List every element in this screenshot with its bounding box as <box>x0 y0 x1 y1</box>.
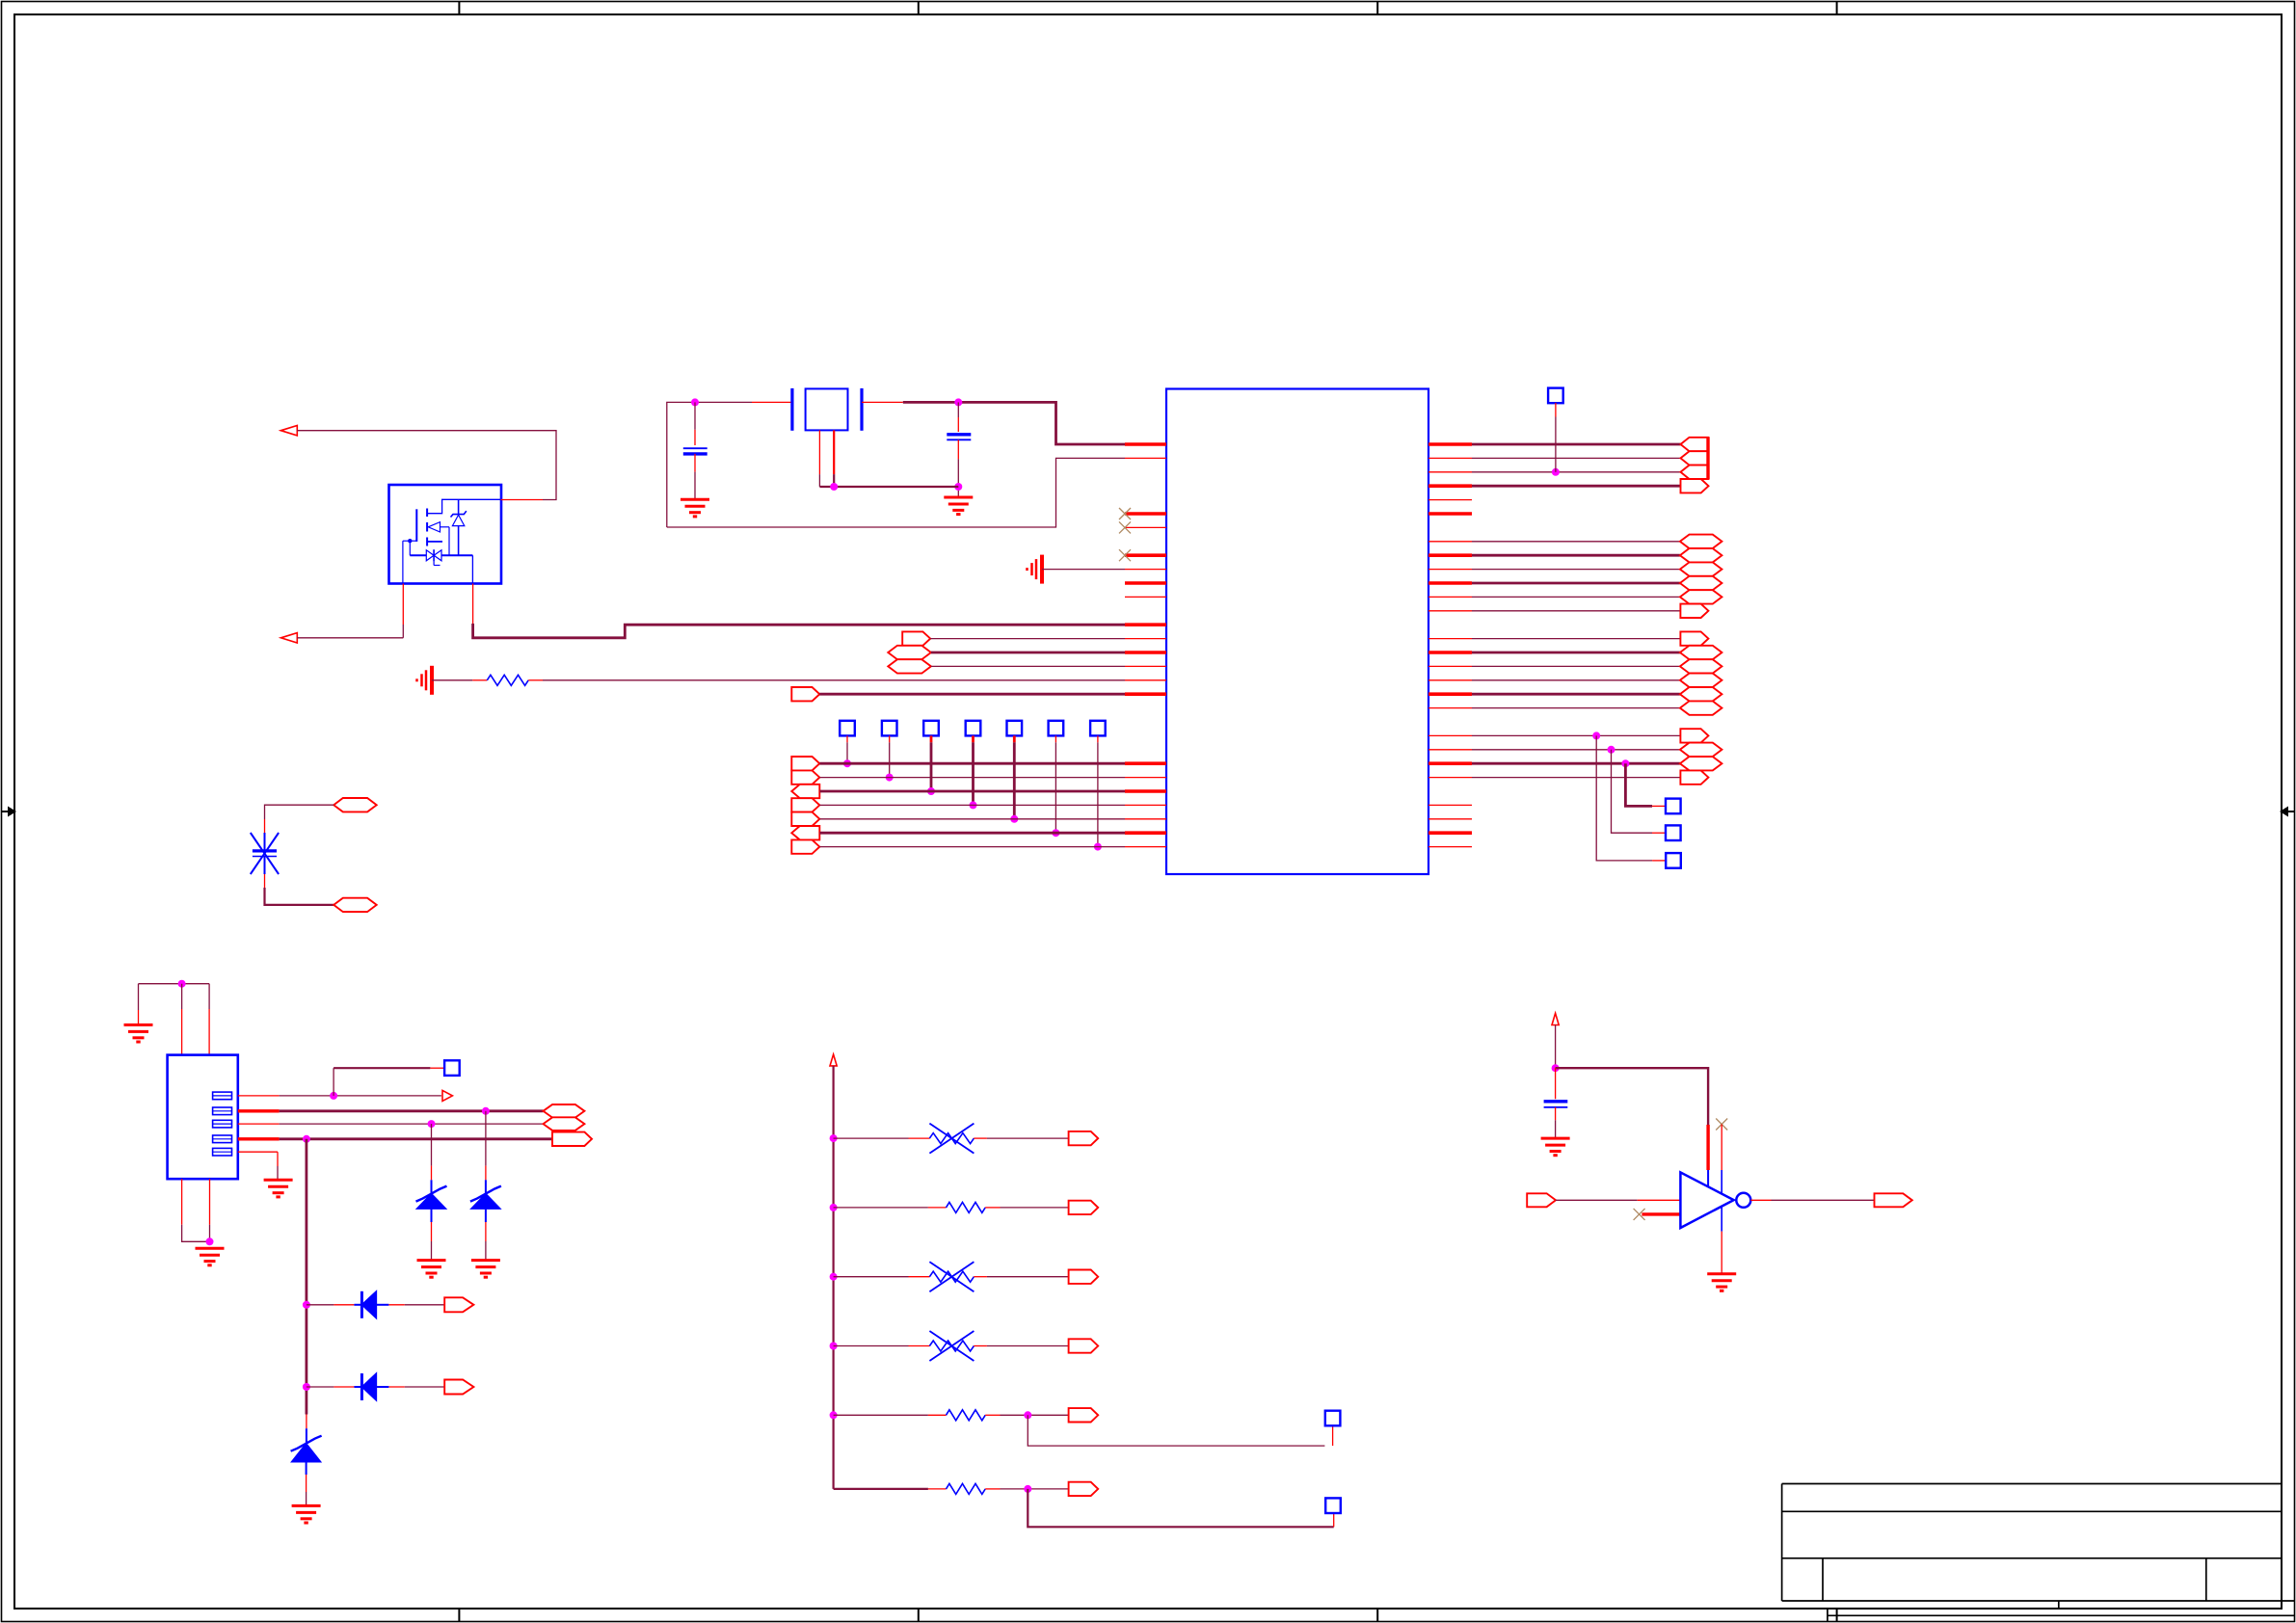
wire TP5 down to bus row y849 <box>1013 742 1016 819</box>
junction dot C2 top <box>954 398 962 406</box>
TP9 pin stub <box>1652 805 1666 807</box>
junction dot TP7 tap <box>1094 843 1102 851</box>
test point TP12 (blue square) <box>1325 1411 1341 1426</box>
IC U1 pin (left, y835) <box>1125 804 1166 806</box>
crossed-out capacitor C3 (not fitted) <box>264 833 266 851</box>
IC U1 pin (right, y777) <box>1428 749 1472 751</box>
junction dot case pin <box>830 483 838 491</box>
U2 pin row2 stub <box>238 1109 280 1112</box>
junction dot U2 top pin <box>178 980 186 988</box>
IC U1 pin (left, y878) <box>1125 846 1166 848</box>
IC U1 unconnected stub pin (right, y518) <box>1428 499 1472 501</box>
diode D2 stub right <box>388 1386 404 1388</box>
diode D2 row wire <box>307 1386 334 1388</box>
port (output right-pointing) bus row y835 <box>791 798 819 811</box>
IC U1 pin XTAL1 (left, y475) <box>1125 457 1166 459</box>
crossed-out resistor (not fitted) y1396 <box>929 1341 974 1351</box>
wire port to IC pin y677 <box>931 652 1125 654</box>
port (bidir hexagon) crossed-cap bottom <box>334 898 377 912</box>
inverter U3 power pin stub <box>1706 1125 1709 1170</box>
wire IC right y489 to port stack <box>1472 471 1681 473</box>
junction dot rail y1468 <box>830 1411 838 1419</box>
junction dot rail y1396 <box>830 1343 838 1350</box>
wire IC right y720 to hex port <box>1472 693 1680 696</box>
U2 window symbol row 3 <box>213 1120 232 1128</box>
port (output right-pointing) y763 <box>1680 729 1708 742</box>
port (output right-pointing) y1252 <box>1069 1201 1099 1214</box>
IC U1 pin (left, y677) <box>1125 651 1166 654</box>
test point TP4 (blue square) <box>966 721 981 736</box>
port (output right-pointing) bus row y849 <box>791 812 819 826</box>
power flag arrow (VCC) bottom-middle rail <box>830 1054 837 1066</box>
wire crossed-out capacitor bottom to hex port <box>265 888 334 905</box>
U2 window symbol row 2 <box>213 1107 232 1115</box>
junction dot test point branch <box>1552 468 1560 476</box>
port (bidir hexagon) y720 <box>1680 687 1722 701</box>
wire y792 branch down to test point TP9 <box>1625 763 1652 806</box>
zener diode Z1 <box>417 1194 446 1210</box>
wire input port to U3 <box>1556 1199 1638 1201</box>
net input arrow (top left) <box>280 426 297 436</box>
IC U1 unconnected stub pin (right, y849) <box>1428 818 1472 820</box>
wire bus row y792 to IC <box>819 762 1125 765</box>
crystal Y1 left plate <box>790 388 793 431</box>
wire IC right y561 to hex port <box>1472 541 1680 543</box>
wire port to IC pin y720 <box>819 693 1125 696</box>
IC U1 ground pin (left, y590) <box>1125 569 1166 571</box>
wire TP8 down to y489 net <box>1555 417 1557 472</box>
zener diode Z2 bottom lead <box>485 1209 487 1222</box>
junction dot inverter supply <box>1552 1064 1560 1072</box>
wire IC right y590 to hex port <box>1472 569 1680 571</box>
junction dot U2 bottom <box>206 1237 214 1245</box>
wire to output port y1181 <box>987 1137 1069 1139</box>
resistor stub left y1544 <box>928 1488 947 1490</box>
wire IC right y734 to hex port <box>1472 707 1680 709</box>
net input arrow (left, lower) <box>280 633 297 643</box>
decoupling capacitor C4 plates <box>1544 1100 1568 1103</box>
wire rail to resistor y1252 <box>834 1207 928 1209</box>
crystal Y1 case pin left <box>818 430 820 474</box>
IC U1 no-connect pin (left, y576) <box>1125 553 1166 557</box>
capacitor C2 top lead <box>957 402 959 417</box>
TP14 pin stub <box>430 1067 444 1069</box>
crossed-out resistor stub left y1181 <box>909 1137 930 1139</box>
junction dot y777 branch <box>1608 746 1615 754</box>
wire IC right y705 to hex port <box>1472 679 1680 681</box>
Q1 gate lead and junction <box>410 540 416 542</box>
junction dot C1 top <box>691 398 699 406</box>
wire U2 row2 to hex port <box>280 1109 544 1112</box>
port (output right-pointing) y806 <box>1680 770 1708 784</box>
wire to output port y1396 <box>987 1345 1069 1347</box>
capacitor C2 bottom lead <box>957 439 959 459</box>
Q1 bottom-left pin stub <box>402 584 404 625</box>
resistor stub right y1252 <box>985 1207 1000 1209</box>
port (bidir hexagon) y734 <box>1680 701 1722 714</box>
port (bidir hexagon) y777 <box>1680 743 1722 757</box>
wire TP7 down to bus row y878 <box>1097 742 1099 846</box>
port (bidir hexagon) row3 <box>544 1117 585 1131</box>
IC U1 pin (right, y605) <box>1428 581 1472 585</box>
IC U1 unconnected stub pin (left, y605) <box>1125 581 1166 585</box>
U2 bottom pin 2 stub <box>209 1179 211 1225</box>
Q1 internal bottom rail with back-to-back clamp <box>410 554 472 556</box>
wire TP3 down to bus row y821 <box>930 742 933 791</box>
port (output) to IC pin y720 <box>791 687 819 701</box>
wire U2 row3 to hex port <box>280 1123 544 1125</box>
IC U1 pin (right, y619) <box>1428 596 1472 598</box>
test point TP1 (blue square) <box>840 721 855 736</box>
crystal Y1 left plate pin stub <box>752 401 792 403</box>
wire IC right y806 to output port <box>1472 777 1680 779</box>
wire rail bottom row y1544 <box>834 1488 928 1490</box>
test point TP10 (blue square) <box>1666 825 1681 840</box>
port (bidir hexagon) y605 <box>1680 576 1722 590</box>
port (input left-pointing) bus row y864 <box>791 826 819 839</box>
wire R1 to IC pin y705 <box>543 679 1125 681</box>
port (bidir hexagon) y705 <box>1680 674 1722 687</box>
port (bidir hexagon) y792 <box>1680 757 1722 770</box>
crystal Y1 case pin right <box>833 430 835 474</box>
Q1 source stub <box>427 541 442 543</box>
TP1 pin stub <box>846 735 848 742</box>
resistor y1544 <box>947 1483 986 1494</box>
IC U1 pin (right, y691) <box>1428 665 1472 667</box>
IC U1 pin (left, y821) <box>1125 789 1166 793</box>
IC U1 pin (right, y677) <box>1428 651 1472 654</box>
wire IC right y691 to hex port <box>1472 665 1680 667</box>
decoupling capacitor C4 top lead <box>1555 1068 1557 1099</box>
ground (rotated) at IC left pin y590 <box>1040 555 1044 584</box>
Q1 gate bar <box>415 509 417 542</box>
IC U1 pin (left, y648) <box>1125 623 1166 626</box>
wire hex port to crossed-out capacitor top <box>265 805 334 819</box>
junction dot TP5 tap <box>1010 815 1018 823</box>
zener diode Z2 top lead <box>485 1111 487 1166</box>
wire U3 output to port <box>1772 1199 1875 1201</box>
junction dot row3 (zener Z1 tap) <box>428 1120 436 1128</box>
resistor y1468 <box>947 1410 986 1421</box>
junction dot TP6 tap <box>1052 829 1059 837</box>
left edge centre marker arrow <box>2 807 17 817</box>
ground (earth) under U3 <box>1707 1272 1736 1275</box>
ground (earth) at U2 row5 <box>264 1179 293 1182</box>
test point TP13 (blue square) <box>1325 1498 1341 1513</box>
port (output right-pointing) y1324 <box>1069 1270 1099 1284</box>
U2 window symbol row 5 <box>213 1148 232 1156</box>
IC U1 pin (right, y705) <box>1428 679 1472 681</box>
capacitor C1 plates <box>683 447 707 449</box>
wire bus row y849 to IC <box>819 818 1125 820</box>
port (output right-pointing) D2 <box>444 1380 473 1395</box>
IC U1 pin (right, y662) <box>1428 638 1472 640</box>
IC U1 unconnected stub pin (right, y878) <box>1428 846 1472 848</box>
wire crystal-right net to IC XTAL2 <box>903 402 1125 444</box>
wire port to IC pin y662 <box>930 638 1125 640</box>
TP13 pin stub <box>1333 1513 1335 1528</box>
wire IC right y461 to port stack <box>1472 443 1681 446</box>
IC U1 pin (right, y475) <box>1428 457 1472 459</box>
port (bidir hexagon) to IC pin y677 <box>888 646 931 659</box>
test point TP14 (blue square) <box>444 1060 460 1076</box>
small output arrow row1 <box>442 1090 452 1101</box>
zener diode Z2 <box>471 1194 500 1210</box>
wire IC right y763 to output port <box>1472 734 1680 736</box>
resistor R1 <box>487 675 528 685</box>
IC U1 pin (left, y720) <box>1125 692 1166 696</box>
wire IC right y633 to output port <box>1472 610 1680 612</box>
wire to output port y1252 <box>1001 1207 1069 1209</box>
port stack (input, left-pointing) y461 <box>1681 438 1709 451</box>
ground under C1 <box>681 498 709 501</box>
IC U1 no-connect pin (left, y547) <box>1125 526 1166 528</box>
crossed-out resistor stub left y1396 <box>909 1345 930 1347</box>
wire bus row y806 to IC <box>819 777 1125 779</box>
test point TP7 (blue square) <box>1090 721 1106 736</box>
port (output right-pointing) bus row y806 <box>791 770 819 784</box>
wire crystal-left net (top rail left part) <box>667 402 752 527</box>
ground (earth) under Z3 <box>292 1504 321 1507</box>
zener diode Z1 top lead <box>431 1124 433 1166</box>
Q1 internal gate-protection zener <box>458 499 460 515</box>
wire crystal-left net bottom loop to IC XTAL1 <box>667 458 1125 527</box>
wire IC right y792 to hex port <box>1472 762 1680 765</box>
wire y777 branch down to test point TP10 <box>1612 750 1653 833</box>
wire rail to crossed-out resistor y1396 <box>834 1345 909 1347</box>
wire rail to crossed-out resistor y1181 <box>834 1137 909 1139</box>
IC U1 pin (left, y691) <box>1125 665 1166 667</box>
IC U1 pin (left, y792) <box>1125 761 1166 765</box>
TP11 pin stub <box>1652 860 1666 862</box>
wire Q1 source to IC pin y648 <box>473 624 1125 638</box>
top edge zone ticks <box>459 2 1836 15</box>
wire bus row y821 to IC <box>819 790 1125 793</box>
zener diode Z3 top lead <box>306 1415 307 1429</box>
port (output right-pointing) U3 out <box>1875 1193 1912 1207</box>
IC U1 unconnected stub pin (right, y864) <box>1428 831 1472 835</box>
port (output right-pointing) bus row y792 <box>791 757 819 770</box>
ground (earth) under Z2 <box>471 1259 500 1262</box>
U2 pin row3 stub <box>238 1123 280 1125</box>
power rail vertical wire <box>832 1066 834 1489</box>
U2 pin row1 stub <box>238 1095 280 1097</box>
port (output right-pointing) y1396 <box>1069 1339 1099 1352</box>
test point TP11 (blue square) <box>1666 853 1681 868</box>
wire row1 branch up to TP14 <box>333 1068 334 1096</box>
wire TP4 down to bus row y835 <box>972 742 974 805</box>
right edge zone ticks <box>2282 406 2295 1217</box>
wire from arrow to MOSFET drain pin <box>297 431 556 500</box>
TP6 pin stub <box>1055 735 1056 742</box>
test point TP5 (blue square) <box>1007 721 1023 736</box>
no-connect X mark at U3 input2 <box>1634 1209 1645 1220</box>
bottom edge zone ticks <box>459 1609 1836 1622</box>
U3 no-connect second input stub <box>1642 1212 1680 1215</box>
no-connect X mark <box>1119 508 1131 519</box>
wire y763 branch down to test point TP11 <box>1596 735 1652 861</box>
port (bidir hexagon) y590 <box>1680 562 1722 575</box>
junction dot rail y1252 <box>830 1204 838 1211</box>
U3 input pin stub <box>1638 1199 1681 1201</box>
junction dot TP4 tap <box>970 801 977 809</box>
crystal Y1 right plate <box>860 388 863 431</box>
ground (rotated) at series resistor R1 <box>430 666 434 695</box>
port (bidir hexagon) y561 <box>1680 535 1722 548</box>
wire IC right y619 to hex port <box>1472 596 1680 598</box>
U3 output pin stub <box>1750 1199 1771 1201</box>
wire top rail of isolator U2 <box>139 983 210 985</box>
port (bidir hexagon) crossed-cap top <box>334 798 377 811</box>
resistor y1252 <box>947 1202 986 1212</box>
junction dot C2 bottom <box>954 483 962 491</box>
diode D1 row wire <box>307 1304 334 1306</box>
decoupling capacitor C4 bottom lead <box>1555 1107 1557 1120</box>
port (output right-pointing) y1544 <box>1069 1482 1099 1496</box>
resistor stub right y1544 <box>985 1488 1000 1490</box>
TP10 pin stub <box>1652 832 1666 834</box>
diode D1 stub left <box>334 1304 354 1306</box>
resistor R1 pin stub left <box>472 679 487 681</box>
ground (earth) under U2 <box>196 1247 225 1250</box>
wire U2 row4 to output port <box>280 1137 552 1140</box>
wire from arrow to MOSFET left pin <box>297 637 403 639</box>
inverter U3 bubble <box>1736 1193 1750 1208</box>
wire y1544 branch down to TP13 <box>1028 1489 1333 1527</box>
wire TP2 down to bus row y806 <box>889 742 891 777</box>
diode D1 stub right <box>388 1304 404 1306</box>
wire rail to crossed-out resistor y1324 <box>834 1276 909 1278</box>
IC U1 pin (left, y806) <box>1125 777 1166 779</box>
crossed-out resistor (not fitted) y1324 <box>929 1271 974 1282</box>
crossed-out capacitor C3 bottom stub <box>264 874 266 888</box>
wire U2 row1 to arrow <box>280 1095 441 1097</box>
diode D2 stub left <box>334 1386 354 1388</box>
TP8 pin stub <box>1555 403 1557 417</box>
IC U1 pin (right, y590) <box>1428 569 1472 571</box>
TP12 pin stub <box>1332 1425 1334 1446</box>
crystal Y1 body <box>806 388 848 430</box>
wire IC right y777 to hex port <box>1472 749 1680 751</box>
wire IC right y504 to output port <box>1472 485 1681 488</box>
port (output right-pointing) row4 <box>552 1132 592 1146</box>
IC U1 pin (right, y763) <box>1428 734 1472 736</box>
port (bidir hexagon) y619 <box>1680 590 1722 603</box>
wire U2 bottom pins to ground <box>182 1225 210 1242</box>
wire port to IC pin y691 <box>931 665 1125 667</box>
U2 bottom pin 1 stub <box>181 1179 183 1225</box>
IC U1 pin (right, y792) <box>1428 761 1472 765</box>
junction dot y792 branch <box>1621 759 1629 767</box>
wire rail to resistor y1468 <box>834 1414 928 1416</box>
test point TP6 (blue square) <box>1049 721 1064 736</box>
IC U1 pin (left, y705) <box>1125 679 1166 681</box>
zener diode Z3 <box>292 1444 321 1462</box>
IC U1 unconnected stub pin (left, y619) <box>1125 596 1166 598</box>
right edge centre marker arrow <box>2280 807 2295 817</box>
wire IC right y662 to output port <box>1472 638 1680 640</box>
diode D1 <box>360 1291 363 1318</box>
crossed-out resistor stub left y1324 <box>909 1276 930 1278</box>
junction dot TP1 tap <box>843 759 851 767</box>
TP3 pin stub <box>930 735 933 742</box>
wire D1 to output port <box>405 1304 444 1306</box>
IC U1 pin (right, y576) <box>1428 553 1472 557</box>
IC U1 pin (right, y720) <box>1428 692 1472 696</box>
wire bus row y864 to IC <box>819 832 1125 835</box>
TP2 pin stub <box>889 735 891 742</box>
resistor stub left y1468 <box>928 1414 947 1416</box>
port (output right-pointing) y1468 <box>1069 1408 1099 1422</box>
junction dot y1544 branch <box>1024 1485 1031 1493</box>
capacitor C2 plates <box>947 433 971 436</box>
wire ground to R1 <box>432 679 472 681</box>
port (bidir hexagon) row2 <box>544 1104 585 1118</box>
wire bus row y878 to IC <box>819 846 1125 848</box>
port (output right-pointing) D1 <box>444 1297 473 1312</box>
junction dot rail y1324 <box>830 1273 838 1281</box>
resistor stub left y1252 <box>928 1207 947 1209</box>
port (input left-pointing) bus row y821 <box>791 785 819 798</box>
wire TP6 down to bus row y864 <box>1055 742 1056 833</box>
zener diode Z3 bottom lead <box>306 1462 307 1475</box>
port stack (input, left-pointing) y489 <box>1681 466 1709 479</box>
capacitor C1 top lead <box>694 402 696 429</box>
IC U1 pin XTAL2 (left, y461) <box>1125 442 1166 446</box>
wire to output port y1544 <box>1001 1488 1069 1490</box>
IC U1 pin (right, y806) <box>1428 777 1472 779</box>
no-connect X mark <box>1119 549 1131 561</box>
junction dot TP2 tap <box>886 774 894 782</box>
IC U1 pin (left, y864) <box>1125 831 1166 835</box>
junction dot TP3 tap <box>927 787 935 795</box>
IC U1 pin (right, y561) <box>1428 541 1472 543</box>
junction dot row4 (diode chain tap) <box>303 1135 310 1143</box>
U2 window symbol row 1 <box>213 1092 232 1100</box>
crossed-out resistor stub right y1324 <box>974 1276 987 1278</box>
port (output right-pointing) y1181 <box>1069 1131 1099 1145</box>
IC U1 pin (right, y734) <box>1428 707 1472 709</box>
wire supply to inverter power pin <box>1556 1068 1709 1125</box>
transistor Q1 protected P-MOSFET block body <box>389 485 502 584</box>
zener diode Z1 bottom lead <box>431 1209 433 1222</box>
wire bus row y835 to IC <box>819 804 1125 806</box>
wire crystal case pins to C2 ground rail <box>819 486 958 488</box>
wire IC right y576 to hex port <box>1472 554 1680 557</box>
port (input) to inverter U3 <box>1527 1193 1556 1207</box>
port (bidir hexagon) to IC pin y691 <box>888 659 931 673</box>
ground (earth) under Z1 <box>417 1259 446 1262</box>
wire IC right y605 to hex port <box>1472 582 1680 585</box>
wire IC right y677 to hex port <box>1472 652 1680 654</box>
left edge zone ticks <box>2 406 15 1217</box>
TP4 pin stub <box>972 735 974 742</box>
port (output, right-pointing) to IC pin y662 <box>902 631 930 645</box>
diode D2 <box>360 1373 363 1400</box>
port (bidir hexagon) y677 <box>1680 646 1722 659</box>
capacitor C1 bottom lead <box>694 454 696 472</box>
test point TP9 (blue square) <box>1666 799 1681 814</box>
port (output right-pointing) y504 <box>1681 479 1709 492</box>
IC U1 unconnected stub pin (right, y533) <box>1428 512 1472 516</box>
junction dot row1 <box>330 1092 337 1100</box>
wire to output port y1324 <box>987 1276 1069 1278</box>
IC U1 pin (left, y849) <box>1125 818 1166 820</box>
IC U1 pin (left, y662) <box>1125 638 1166 640</box>
U3 ground pin <box>1721 1207 1722 1232</box>
wire ground to IC pin y590 <box>1042 569 1125 571</box>
U2 pin row5 stub <box>238 1151 278 1153</box>
